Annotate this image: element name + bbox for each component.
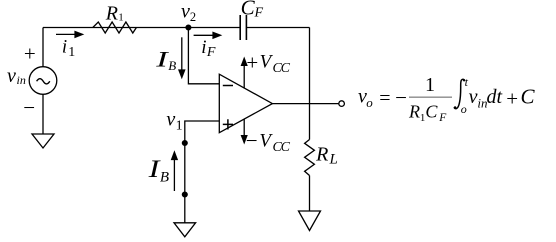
svg-text:F: F: [438, 112, 447, 124]
svg-text:+: +: [24, 42, 36, 66]
svg-text:C: C: [521, 85, 536, 109]
svg-text:1: 1: [425, 74, 435, 96]
svg-text:in: in: [17, 73, 26, 87]
svg-text:−: −: [23, 95, 35, 119]
svg-text:I: I: [155, 47, 169, 72]
svg-text:o: o: [366, 95, 373, 110]
svg-text:v: v: [7, 65, 16, 87]
svg-text:−: −: [246, 128, 258, 152]
svg-text:dt: dt: [487, 86, 503, 108]
svg-text:+: +: [246, 50, 258, 74]
svg-text:v: v: [166, 108, 175, 130]
svg-text:C: C: [241, 0, 256, 20]
svg-text:L: L: [329, 151, 338, 167]
svg-text:C: C: [425, 101, 438, 121]
svg-text:v: v: [181, 1, 190, 23]
svg-text:B: B: [168, 58, 176, 73]
svg-text:R: R: [315, 143, 328, 165]
svg-text:CC: CC: [273, 140, 291, 155]
svg-text:1: 1: [176, 118, 183, 133]
svg-text:1: 1: [118, 12, 124, 24]
svg-text:+: +: [506, 87, 518, 111]
svg-text:o: o: [461, 102, 467, 116]
svg-text:v: v: [469, 86, 478, 108]
svg-text:i: i: [62, 37, 67, 58]
svg-text:1: 1: [68, 45, 75, 60]
svg-text:F: F: [206, 45, 216, 60]
svg-text:2: 2: [190, 10, 196, 24]
svg-text:i: i: [201, 37, 206, 58]
svg-text:CC: CC: [273, 61, 291, 76]
svg-text:R: R: [408, 101, 420, 121]
svg-text:=: =: [379, 88, 390, 110]
svg-text:−: −: [395, 85, 407, 109]
svg-text:F: F: [254, 6, 264, 21]
svg-text:R: R: [105, 3, 118, 25]
svg-text:B: B: [160, 169, 169, 185]
